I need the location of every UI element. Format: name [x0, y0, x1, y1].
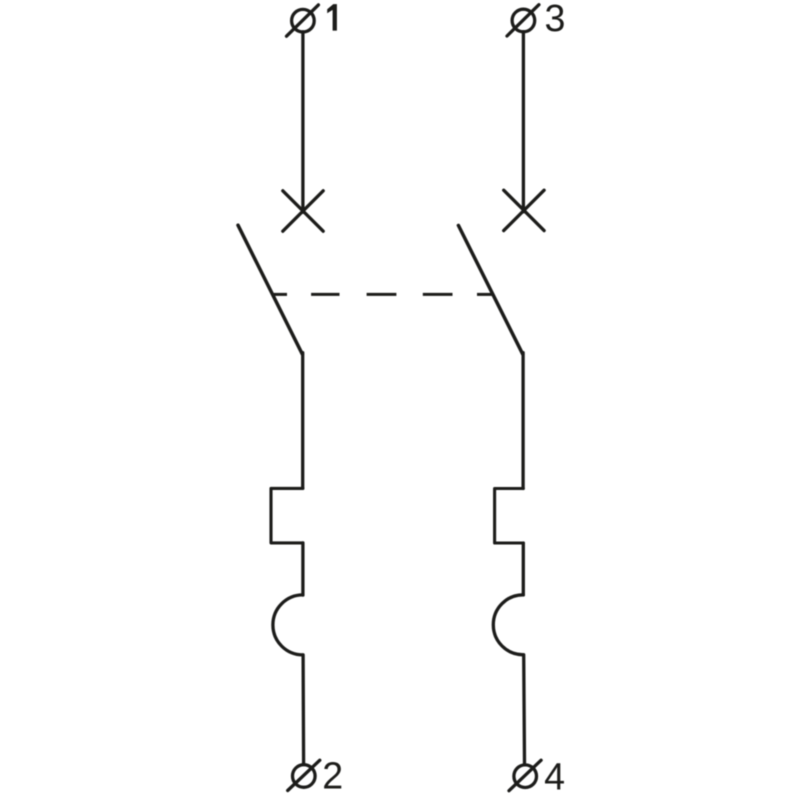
- svg-text:2: 2: [322, 755, 343, 797]
- thermal overload release pole 2 (rectangular notch): [495, 489, 524, 544]
- contact X pole 1: [283, 191, 323, 231]
- terminal 3 (circle with slash): [507, 5, 539, 36]
- wire: thermal to magnetic release pole 1: [301, 543, 304, 595]
- wire: terminal 3 to contact: [522, 32, 525, 212]
- svg-text:4: 4: [544, 755, 565, 797]
- wire: terminal 1 to contact: [301, 32, 304, 212]
- switch blade pole 2: [458, 225, 522, 354]
- terminal 4 (circle with slash): [509, 760, 541, 791]
- wire: magnetic release to terminal 4: [522, 655, 526, 764]
- thermal overload release pole 1 (rectangular notch): [271, 488, 303, 543]
- switch blade pole 1: [238, 225, 302, 354]
- wire: blade to thermal release pole 2: [521, 353, 524, 489]
- contact X pole 2: [504, 190, 544, 230]
- wire: magnetic release to terminal 2: [301, 655, 305, 763]
- svg-text:3: 3: [545, 0, 566, 39]
- magnetic release pole 2 (semicircle): [493, 595, 523, 655]
- mechanical linkage (dashed tie bar): [273, 293, 493, 296]
- wire: blade to thermal release pole 1: [301, 353, 304, 489]
- terminal 1 (circle with slash): [287, 5, 319, 36]
- pin label 1: [327, 4, 337, 31]
- magnetic release pole 1 (semicircle): [273, 595, 303, 655]
- wire: thermal to magnetic release pole 2: [522, 543, 525, 595]
- terminal 2 (circle with slash): [288, 760, 320, 790]
